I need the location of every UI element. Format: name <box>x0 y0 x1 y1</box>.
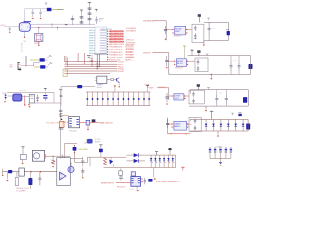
block1 input wire <box>153 20 167 22</box>
svg-text:RESET-2: RESET-2 <box>171 181 180 183</box>
wire R7 out red <box>90 122 99 124</box>
capacitor C5 on VCC <box>88 12 92 14</box>
junction C15 ground <box>82 177 83 178</box>
power flag AVCC <box>81 10 83 12</box>
wire U8 to box <box>184 95 189 97</box>
wire U6 to box <box>186 29 192 31</box>
bridge module B1 <box>19 168 24 176</box>
svg-text:VCC-IO: VCC-IO <box>159 86 166 88</box>
wire led2 out <box>45 66 48 68</box>
crystal Y1 body <box>35 34 43 42</box>
block3 input vertical <box>168 88 170 100</box>
led rail mid <box>126 160 145 162</box>
block3 wire U8 in <box>169 95 172 97</box>
svg-text:ADC2/PC2-D16: ADC2/PC2-D16 <box>109 35 124 38</box>
svg-text:ADC1/PC1-D15: ADC1/PC1-D15 <box>109 33 124 36</box>
mosfet T1 body <box>68 166 74 172</box>
capacitor ladder bodies <box>86 98 88 100</box>
block4 diode row <box>205 119 207 131</box>
capacitor C10 left <box>60 94 63 96</box>
capacitor C12 electrolytic <box>29 172 31 189</box>
svg-text:X2: X2 <box>24 41 27 43</box>
capacitor C1 <box>32 9 34 13</box>
svg-text:22p: 22p <box>42 11 45 13</box>
svg-text:VUSB: VUSB <box>144 84 150 86</box>
block3 polarized cap C30 <box>243 97 247 103</box>
wire U2 out <box>23 96 30 98</box>
block2 ground C23 <box>166 67 168 69</box>
ground crystal Y1 <box>38 44 40 46</box>
serial wire 3 <box>65 66 118 68</box>
block2 capacitor C23 <box>166 56 168 60</box>
wire ladder left vertical <box>60 87 62 106</box>
svg-text:C7: C7 <box>99 21 101 23</box>
led column group <box>150 155 152 167</box>
op-amp U4 triangle <box>60 172 67 180</box>
wire U10 out red <box>80 122 87 124</box>
ground rail left <box>6 172 8 179</box>
block3 ground <box>205 106 207 109</box>
power jack X1 body <box>32 150 44 161</box>
wire R3 to Q2 <box>114 79 117 81</box>
capacitor C38 third <box>72 16 74 26</box>
wire connector up 1 <box>24 56 26 66</box>
wire led array ground stem <box>153 168 155 178</box>
wire U7 to box <box>186 60 195 62</box>
svg-text:ADC5/PC5-SCL: ADC5/PC5-SCL <box>109 43 125 46</box>
led rail low <box>104 167 176 169</box>
block3 input wire <box>157 87 169 89</box>
junction D1 <box>53 156 54 157</box>
svg-text:SOT23: SOT23 <box>95 139 100 141</box>
block3 ground C27 <box>166 103 168 105</box>
led rail top <box>126 154 175 156</box>
wire oscillator output 2 <box>30 27 95 29</box>
wire VCC stem <box>89 5 91 25</box>
mcu U1 pin numbers left <box>89 30 93 31</box>
ferrite bead L1 <box>47 8 52 11</box>
ground U2 red <box>24 95 26 104</box>
svg-text:ADC4/PC4-SDA: ADC4/PC4-SDA <box>109 40 125 43</box>
wire flag to jack <box>22 149 24 155</box>
mcu U1 pin names inside <box>100 30 106 31</box>
wire fuse down <box>75 153 88 163</box>
capacitor stack box <box>119 171 123 176</box>
wire oscillator ground stem <box>24 31 26 37</box>
block3 box cap 2 <box>193 98 195 100</box>
serial wire 2 <box>65 63 118 65</box>
ground usb bottom <box>28 104 29 105</box>
mcu U1 left pin stubs <box>93 29 95 31</box>
diode D6 dark <box>92 119 96 122</box>
block2 power flag yellow <box>184 46 186 48</box>
led RX body <box>40 65 45 68</box>
capacitor C3 left <box>9 27 11 29</box>
comparator U4 body <box>57 158 71 186</box>
svg-text:69-5.0: 69-5.0 <box>177 63 182 65</box>
block2 capacitor C25 <box>238 62 240 66</box>
svg-text:ADC3/PC3-D17: ADC3/PC3-D17 <box>109 38 124 41</box>
power jack pins <box>45 154 46 155</box>
main wire power rail <box>3 171 57 173</box>
ladder ground flag <box>114 85 116 92</box>
capacitor bank group <box>209 147 211 149</box>
block4 ground <box>217 131 219 135</box>
net flag red above <box>182 167 184 170</box>
block4 capacitor C31 <box>167 120 169 123</box>
block2 polarized cap C26 <box>249 64 253 69</box>
block2 wire U7 in <box>169 60 174 62</box>
block3 connector box <box>189 90 204 104</box>
svg-text:MIC5205: MIC5205 <box>69 131 76 133</box>
wire oscillator drop A <box>51 24 53 27</box>
wire led1 in <box>30 59 40 61</box>
capacitor C37 <box>119 176 123 178</box>
svg-text:NCP1117: NCP1117 <box>175 68 183 70</box>
svg-text:ICSP: ICSP <box>130 189 135 191</box>
resistor R7 <box>86 120 90 125</box>
power jack X1 circle <box>34 153 40 159</box>
capacitor C11 input <box>20 155 26 160</box>
block1 box cap 2 <box>194 33 196 36</box>
fuse F1 <box>74 146 76 153</box>
ic U5 body <box>131 177 141 187</box>
wire crystal drop <box>38 28 40 34</box>
svg-text:VIN-5V0: VIN-5V0 <box>143 52 151 54</box>
ground U5 <box>136 186 138 189</box>
block4 connector box <box>189 117 201 131</box>
block3 U8 pins <box>172 95 174 97</box>
svg-text:RESET-ISP5V: RESET-ISP5V <box>101 183 115 185</box>
diode D5 <box>134 159 139 163</box>
capacitor C6 on VCC <box>88 18 92 20</box>
ground C11 <box>22 160 24 163</box>
capacitor C8 on AVCC <box>80 21 84 23</box>
ic U10 pins blue <box>69 118 72 120</box>
serial wire 4 <box>65 68 118 70</box>
resistor R6 chain <box>59 121 64 127</box>
wire mcu to bundle 1 <box>77 53 79 62</box>
svg-text:OSC1: OSC1 <box>0 25 6 27</box>
block4 rail top <box>190 118 248 120</box>
wire bundle left risers <box>64 56 66 62</box>
block4 box cap 2 <box>194 125 196 127</box>
wire led2 in <box>34 66 40 68</box>
block1 regulator U6 <box>175 26 186 35</box>
resistor pack RN1 <box>63 69 67 77</box>
diode D3 <box>109 160 113 165</box>
capacitor C7 on AVCC <box>80 16 84 18</box>
svg-text:5-3.3: 5-3.3 <box>175 98 179 100</box>
led bodies <box>150 158 152 161</box>
block4 wire U9 in <box>168 123 172 125</box>
svg-text:RTS-B: RTS-B <box>118 71 125 73</box>
svg-text:IO12/MISO: IO12/MISO <box>126 30 136 32</box>
inductor L2 on feed <box>77 85 82 88</box>
capacitor C34 blue plates <box>43 92 47 94</box>
wire jack output <box>49 155 71 157</box>
junction chain <box>61 119 63 121</box>
block1 rail top <box>204 21 228 23</box>
ground Q2 <box>118 86 120 88</box>
svg-text:IO5/PD5: IO5/PD5 <box>126 51 135 53</box>
power flag 5V mid <box>100 145 102 147</box>
block1 rail bottom <box>204 40 228 42</box>
svg-text:BSS84: BSS84 <box>95 142 100 144</box>
svg-text:C-BANK: C-BANK <box>216 146 223 149</box>
ground C18 <box>4 101 6 103</box>
svg-text:VIN-GATE-CMP: VIN-GATE-CMP <box>46 122 60 125</box>
block2 input vertical <box>168 53 170 75</box>
block1 power flag A <box>198 17 200 23</box>
ic U2 body <box>12 94 22 102</box>
block2 rail right vertical <box>250 56 252 75</box>
led rail right vertical <box>175 155 177 167</box>
block3 rail top <box>190 89 248 91</box>
power flag VCC mcu <box>89 3 91 5</box>
svg-text:100n: 100n <box>212 28 216 30</box>
block1 ground C20 <box>165 38 167 40</box>
capacitor C39 above U5 <box>131 172 135 176</box>
capacitor C13 <box>39 172 41 178</box>
capacitor ladder verticals <box>86 92 88 106</box>
block1 rail right vertical <box>227 22 229 40</box>
wire AVCC stem <box>81 12 83 25</box>
sot23 Q3 wire <box>84 139 87 143</box>
block4 box cap 1 <box>194 119 196 121</box>
capacitor C36 chain <box>59 127 64 129</box>
svg-text:100n: 100n <box>219 93 223 95</box>
ic U5 left wire <box>116 182 131 184</box>
block2 connector box <box>195 58 208 72</box>
junction bundle <box>91 60 92 61</box>
svg-text:VIN-REG: VIN-REG <box>143 21 152 23</box>
junction rail 2 <box>40 171 41 172</box>
ic U5 right pins <box>142 178 144 180</box>
svg-text:VOUT: VOUT <box>187 124 193 126</box>
wire R7 ground <box>87 125 89 129</box>
svg-text:M8: M8 <box>10 67 13 69</box>
block2 box cap 1 <box>197 59 199 61</box>
serial wire 1 <box>65 61 118 63</box>
wire mcu to bundle 3 <box>91 58 93 67</box>
svg-text:CSTCE16M: CSTCE16M <box>22 42 24 53</box>
mcu U1 lower pin labels <box>89 55 93 56</box>
block3 box cap 1 <box>193 92 195 94</box>
wire chain to U10 <box>61 115 69 117</box>
svg-text:16MHz: 16MHz <box>34 43 40 45</box>
serial wire 6 <box>65 72 111 74</box>
resistor R4 <box>16 172 18 178</box>
ladder bottom rail <box>86 105 151 107</box>
block3 capacitor C28 <box>216 94 218 98</box>
capacitor C16 on 5V <box>99 149 103 152</box>
capacitor C15 <box>82 168 84 177</box>
ground C3 <box>9 31 11 33</box>
capacitor bank ground <box>220 158 222 162</box>
ic U3 left pins <box>95 77 97 79</box>
block3 rail bottom <box>189 105 248 107</box>
input terminal <box>2 169 4 175</box>
oscillator Q1 body <box>19 23 30 32</box>
ic U10 body <box>69 117 80 128</box>
wire 5V rail <box>88 156 127 158</box>
svg-text:22p: 22p <box>31 11 34 13</box>
mcu bottom pin stubs <box>96 54 98 69</box>
fuse F2 <box>8 170 12 173</box>
block2 rail top <box>188 55 251 57</box>
connector chain bracket <box>60 114 62 117</box>
block1 box cap 1 <box>194 26 196 28</box>
block3 capacitor C29 <box>225 94 227 98</box>
svg-text:IO10/SS: IO10/SS <box>126 45 134 47</box>
wire top-left net to oscillator <box>25 9 47 23</box>
block1 connector box <box>192 24 204 42</box>
svg-text:ADC0/PC0-D14: ADC0/PC0-D14 <box>109 30 124 33</box>
block2 capacitor C24 <box>230 62 232 66</box>
crystal Y1 ground stem <box>38 42 40 47</box>
block2 rail bottom <box>169 74 251 76</box>
wire to led rail <box>34 63 40 67</box>
resistor R5 zigzag <box>104 158 107 165</box>
mcu right net labels group <box>107 30 109 32</box>
serial connector J1 <box>18 62 20 69</box>
block2 regulator U7 <box>176 59 186 67</box>
capacitor C9 AREF <box>96 17 98 20</box>
block3 rail right vertical <box>247 90 249 106</box>
oscillator Q1 top mark <box>24 21 31 23</box>
ground C2 <box>40 17 42 19</box>
wire Q2 emitter <box>118 82 120 85</box>
wire oscillator output 1 <box>30 23 95 25</box>
svg-text:100n: 100n <box>233 60 237 62</box>
capacitor C35 chain <box>59 109 62 111</box>
svg-text:MF-MSMF: MF-MSMF <box>79 149 89 151</box>
svg-text:AREF-C: AREF-C <box>125 59 133 62</box>
block4 ground flag top <box>211 111 213 120</box>
usb top wire <box>7 92 54 94</box>
led TX body <box>40 58 45 61</box>
junction mcu bottom <box>97 68 98 69</box>
ladder power flag <box>147 85 149 87</box>
transistor Q2 <box>116 78 118 81</box>
vertical chain wire <box>60 103 62 159</box>
block3 power flag A <box>197 85 199 90</box>
wire mcu to bundle 2 <box>83 53 85 64</box>
svg-text:GATE-CMD-5V: GATE-CMD-5V <box>99 122 113 125</box>
svg-text:AMP-1: AMP-1 <box>175 125 181 128</box>
power flag 5V leds second <box>156 152 158 156</box>
block3 regulator U8 <box>174 94 184 100</box>
diode D4 <box>134 153 139 157</box>
diode D1 zigzag <box>52 160 55 164</box>
junction dash on osc wire <box>65 24 68 26</box>
svg-text:V3V3: V3V3 <box>149 87 155 89</box>
block2 U7 pins <box>174 60 176 62</box>
mcu U1 body <box>95 27 107 54</box>
capacitor C18 with arrows <box>5 94 7 100</box>
wire U9 to box <box>186 123 189 125</box>
power flag small mid <box>95 9 97 11</box>
usb bottom wire <box>35 102 61 104</box>
crystal Y1 inner <box>37 35 41 40</box>
power flag input <box>22 147 24 149</box>
capacitor C2 <box>40 9 42 13</box>
usb right vertical <box>53 93 55 104</box>
svg-text:M05x2: M05x2 <box>97 87 102 89</box>
wire comparator top <box>70 158 83 160</box>
net flag TX <box>47 56 50 59</box>
connector ground mark <box>19 69 22 71</box>
wire led1 out <box>45 59 48 61</box>
svg-text:USB-VCC: USB-VCC <box>19 90 28 92</box>
block2 power flag D <box>206 54 208 56</box>
svg-text:IO4/PD4: IO4/PD4 <box>126 49 135 51</box>
power flag chain top <box>60 90 62 103</box>
resistor R3 <box>111 79 114 81</box>
serial wire 5 <box>65 70 118 72</box>
ground marks mcu corner <box>87 55 90 57</box>
wire C18 to U2 <box>8 95 12 97</box>
block1 ground <box>203 44 205 46</box>
wire U3 out <box>107 79 111 81</box>
wire connector up 2 <box>26 56 28 66</box>
junction rail 1 <box>30 171 31 172</box>
block3 capacitor C27 <box>166 93 168 97</box>
svg-text:IO7/PD7: IO7/PD7 <box>126 57 135 59</box>
block4 rail bottom <box>190 130 248 132</box>
block1 U6 pins <box>173 29 175 31</box>
block4 capacitor C32 top <box>238 114 241 116</box>
block1 capacitor C20 <box>165 24 167 40</box>
block4 red rail bottom <box>168 133 191 135</box>
junction crystal drop <box>38 27 39 28</box>
wire L1 output <box>52 9 58 11</box>
capacitor C4 on VCC <box>88 7 92 9</box>
capacitor C19 <box>37 94 39 97</box>
block2 ground <box>211 74 212 75</box>
diode D2 <box>61 155 63 172</box>
block2 power flag dark <box>191 50 193 52</box>
svg-text:IO6/PD6: IO6/PD6 <box>126 54 135 56</box>
oscillator Q1 inner pin marks <box>21 25 22 26</box>
block4 rail right vertical <box>247 119 249 131</box>
capacitor bank rail <box>210 157 231 159</box>
wire T1 drain <box>70 162 72 166</box>
wire right of T1 <box>89 157 91 167</box>
capacitor C17 <box>144 178 146 181</box>
capacitor C14 <box>82 157 84 167</box>
block1 power flag B <box>208 18 210 20</box>
power flag 5V leds <box>169 150 171 152</box>
block3 power flag B <box>208 88 210 90</box>
block4 power flag gray <box>232 113 234 115</box>
ladder top rail <box>86 91 151 93</box>
block4 U9 pins <box>172 123 174 125</box>
block1 wire U6 in <box>166 29 172 31</box>
sot23 Q3 body <box>87 139 93 144</box>
svg-text:NCP1117: NCP1117 <box>173 36 181 38</box>
block1 polarized cap C22 <box>227 31 230 35</box>
power flag C34 <box>44 88 46 90</box>
block4 polarized cap C33 <box>246 124 250 130</box>
resonator X3 box <box>29 94 34 103</box>
block2 input wire <box>153 52 169 54</box>
wire connector horizontal <box>21 65 34 67</box>
junction oscillator ground <box>24 37 25 38</box>
block4 input vertical <box>167 118 169 134</box>
ic U5 pin bars <box>132 177 134 179</box>
